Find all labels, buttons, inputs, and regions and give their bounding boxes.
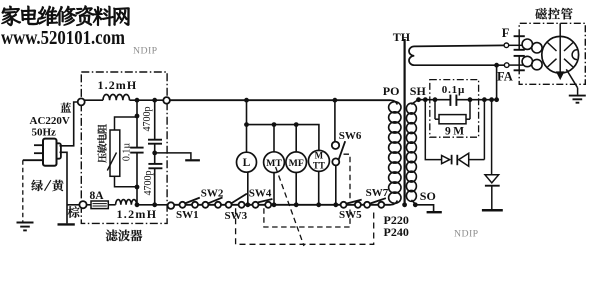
wire to brown node xyxy=(67,204,80,206)
node terminal bottom-left xyxy=(79,201,86,208)
chassis bar HV xyxy=(482,209,503,212)
magnetron antenna xyxy=(559,23,561,74)
link inner dashed xyxy=(264,208,350,227)
plug prong N xyxy=(34,152,43,154)
svg-text:FA: FA xyxy=(497,70,513,84)
wire SW6 bottom xyxy=(335,165,337,204)
motor L lamp xyxy=(237,152,257,172)
switch SW2 xyxy=(202,202,208,208)
wire magnetron to ground xyxy=(566,69,577,88)
winding PO primary xyxy=(389,102,401,113)
label 滤波器 xyxy=(106,229,143,241)
node dot MF bus xyxy=(294,202,299,207)
node dot HV2 xyxy=(433,97,438,102)
fuse F1 8A body xyxy=(91,201,108,209)
svg-text:AC220V: AC220V xyxy=(30,115,70,127)
node dot cap branch bottom xyxy=(135,202,140,207)
svg-text:SW1: SW1 xyxy=(176,209,199,221)
diode D1 xyxy=(442,156,450,164)
chassis bar under plug xyxy=(58,223,75,225)
svg-text:L: L xyxy=(243,157,251,169)
wire plug-top to node xyxy=(60,102,78,146)
wire MT bottom xyxy=(273,173,275,205)
wire MF bottom xyxy=(295,173,297,205)
node dot SW6 bus xyxy=(333,202,338,207)
core line xyxy=(404,39,406,203)
switch SW3 xyxy=(226,202,232,208)
wire cap branch lower xyxy=(136,153,138,205)
ground magnetron xyxy=(569,95,586,97)
node dot L bus xyxy=(245,202,250,207)
node terminal top-left xyxy=(78,98,85,105)
choke F xyxy=(522,39,532,49)
magnetron filament X xyxy=(548,43,557,52)
wire L drop xyxy=(246,100,248,152)
label 棕 xyxy=(68,206,80,218)
HV dash-dot box xyxy=(430,80,479,138)
node dot feeder-MF xyxy=(294,122,299,127)
wire HV bus right xyxy=(456,99,496,101)
node dot HV3 xyxy=(468,97,473,102)
varistor RV1 body xyxy=(110,130,120,176)
wire SW6 drop xyxy=(334,100,336,141)
svg-text:SW7: SW7 xyxy=(366,187,389,199)
svg-text:SO: SO xyxy=(420,189,436,203)
wire to chassis mid xyxy=(155,153,191,160)
wire cap branch upper xyxy=(136,100,138,147)
svg-text:P240: P240 xyxy=(384,225,409,239)
choke FA xyxy=(522,56,532,66)
wire bottom bus xyxy=(174,204,390,206)
node dot loop top xyxy=(135,114,140,119)
feedthrough cap F xyxy=(514,35,525,37)
node dot filter mid xyxy=(152,151,157,156)
wire FA lead xyxy=(509,64,522,66)
wire top bus xyxy=(170,99,391,101)
motor MT xyxy=(264,152,285,173)
wire HV ground riser xyxy=(491,100,493,175)
wire earth dashed xyxy=(22,160,24,221)
capacitor C2 4700p plates xyxy=(148,139,162,141)
plug prong E xyxy=(23,159,43,161)
ground earth symbol xyxy=(17,222,34,224)
inductor L1 1.2mH top xyxy=(85,99,103,101)
diode D3 HV xyxy=(485,175,499,183)
node dot HV5 xyxy=(489,97,494,102)
svg-text:MT: MT xyxy=(266,158,282,169)
switch SW5 xyxy=(341,202,347,208)
node dot 4700p top xyxy=(152,98,157,103)
magnetron dash-dot box xyxy=(519,23,585,84)
svg-text:PO: PO xyxy=(383,84,400,98)
node dot FA xyxy=(494,63,499,68)
node dot SH top xyxy=(416,97,421,102)
wire SO to chassis xyxy=(415,205,433,212)
wire diode branch xyxy=(425,100,441,160)
label 压敏电阻 xyxy=(97,124,107,163)
wire L bottom xyxy=(247,172,249,204)
terminal F xyxy=(504,43,509,48)
svg-text:4700p: 4700p xyxy=(143,171,154,196)
svg-text:SW6: SW6 xyxy=(339,130,362,142)
svg-text:MF: MF xyxy=(289,158,304,169)
wire node to fuse xyxy=(87,204,91,206)
svg-text:SH: SH xyxy=(410,84,427,98)
node dot cap branch top xyxy=(135,98,140,103)
resistor R1 9M xyxy=(434,100,436,120)
wire F lead xyxy=(509,44,522,46)
switch SW7 xyxy=(364,202,370,208)
motor M/TT xyxy=(308,150,329,171)
svg-text:8A: 8A xyxy=(90,190,105,202)
svg-text:TT: TT xyxy=(313,160,325,170)
svg-text:9M: 9M xyxy=(445,126,467,138)
node terminal bottom-right xyxy=(168,202,175,209)
wire motor feeder xyxy=(247,125,319,151)
switch SW4 xyxy=(253,202,259,208)
svg-text:50Hz: 50Hz xyxy=(32,127,57,139)
switch SW1 xyxy=(180,202,186,208)
wire MT drop xyxy=(273,125,275,152)
svg-text:4700p: 4700p xyxy=(142,107,153,132)
chassis bar filter xyxy=(185,159,200,161)
node dot HV4 xyxy=(482,97,487,102)
logo text 家电维修资料网 xyxy=(2,6,130,26)
svg-text:SW4: SW4 xyxy=(249,187,272,199)
magnetron tube circle xyxy=(542,36,579,73)
node dot SW6 drop xyxy=(333,98,338,103)
link MT diagonal dashed xyxy=(276,167,304,246)
node dot core bottom xyxy=(402,202,407,207)
plug prong L xyxy=(34,144,43,146)
label 磁控管 xyxy=(535,8,572,20)
wire 4700p lower xyxy=(154,168,156,205)
node dot 4700p bottom xyxy=(152,202,157,207)
capacitor C4 0.1μ HV xyxy=(449,95,451,106)
varistor RV1 diagonal xyxy=(107,153,116,171)
wire 4700p mid xyxy=(154,144,156,164)
node dot SH bottom xyxy=(413,202,418,207)
wire M/TT bottom xyxy=(318,171,320,204)
wire MF drop xyxy=(295,125,297,152)
svg-text:TH: TH xyxy=(393,30,411,44)
svg-text:1.2mH: 1.2mH xyxy=(117,207,158,221)
wire D3 to ground xyxy=(491,186,493,209)
node dot MT bus xyxy=(272,202,277,207)
capacitor C3 4700p plates xyxy=(148,163,162,165)
plug P1 body xyxy=(43,139,57,166)
node dot loop bottom xyxy=(135,185,140,190)
node dot M/TT bus xyxy=(316,202,321,207)
svg-text:SW2: SW2 xyxy=(201,187,224,199)
label 蓝 xyxy=(61,103,71,113)
svg-text:0.1µ: 0.1µ xyxy=(442,84,465,96)
wire varistor loop xyxy=(115,117,138,130)
switch SW6 xyxy=(332,142,339,149)
capacitor C1 0.1μ plates xyxy=(130,147,143,149)
terminal FA xyxy=(504,63,509,68)
wire FA riser xyxy=(496,65,498,100)
node dot L drop xyxy=(244,98,249,103)
node dot HV1 xyxy=(423,97,428,102)
svg-text:M: M xyxy=(315,151,324,161)
svg-text:NDIP: NDIP xyxy=(133,46,158,57)
chassis bar SO xyxy=(427,211,442,213)
node terminal top-right xyxy=(163,97,170,104)
svg-text:1.2mH: 1.2mH xyxy=(98,78,138,92)
node dot HV-FA xyxy=(494,97,499,102)
winding SH secondary xyxy=(406,103,416,114)
node dot feeder-L xyxy=(244,122,249,127)
diode D2 xyxy=(459,153,469,166)
link outer dashed U xyxy=(236,208,374,244)
node dot feeder-MT xyxy=(272,122,277,127)
magnetron anode arc xyxy=(572,50,577,60)
inductor L2 1.2mH bottom xyxy=(108,204,115,206)
motor MF xyxy=(286,152,307,173)
link SW6 dashed xyxy=(344,154,351,199)
svg-text:NDIP: NDIP xyxy=(454,229,479,240)
wire diode to riser xyxy=(469,159,485,161)
filter dash-dot box xyxy=(81,72,167,223)
label 绿/黄 xyxy=(31,180,63,191)
wire HV bus left xyxy=(419,99,451,101)
winding TH filament xyxy=(409,45,504,65)
svg-text:www.520101.com: www.520101.com xyxy=(1,27,125,49)
wire plug-bottom down xyxy=(60,152,68,223)
svg-text:F: F xyxy=(502,26,510,40)
wire 4700p upper xyxy=(154,100,156,140)
feedthrough cap FA xyxy=(514,55,525,57)
